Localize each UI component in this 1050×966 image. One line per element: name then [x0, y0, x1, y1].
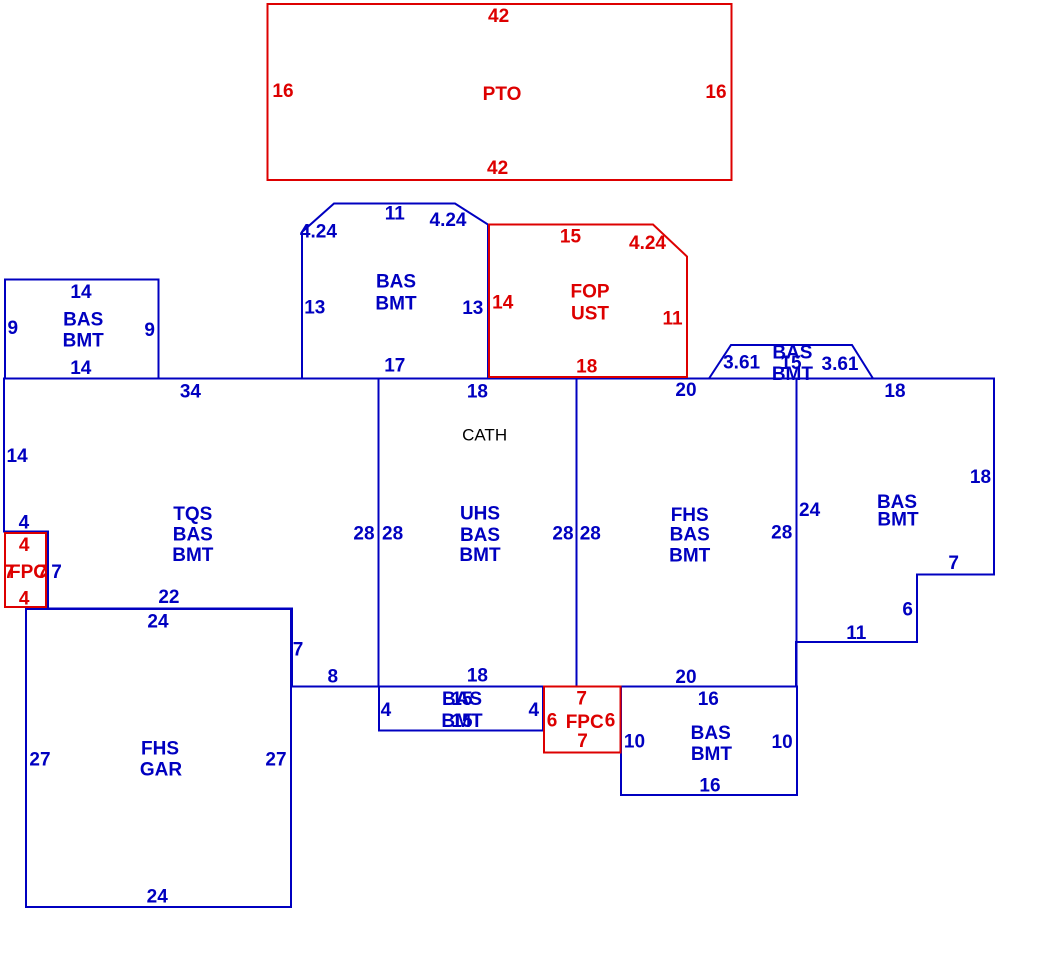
svg-text:7: 7 — [37, 562, 48, 583]
svg-text:34: 34 — [180, 382, 202, 403]
svg-text:18: 18 — [467, 382, 488, 403]
svg-text:BAS: BAS — [670, 524, 710, 545]
svg-text:4.24: 4.24 — [430, 210, 467, 231]
svg-text:11: 11 — [846, 623, 867, 644]
svg-text:28: 28 — [382, 524, 403, 545]
svg-text:FOP: FOP — [570, 282, 609, 303]
svg-text:GAR: GAR — [140, 760, 183, 781]
svg-text:10: 10 — [624, 732, 645, 753]
svg-text:BAS: BAS — [376, 272, 416, 293]
svg-text:BMT: BMT — [459, 545, 501, 566]
svg-text:BMT: BMT — [172, 545, 214, 566]
svg-text:10: 10 — [772, 732, 793, 753]
svg-text:42: 42 — [488, 6, 509, 27]
svg-text:9: 9 — [144, 320, 155, 341]
svg-text:24: 24 — [147, 612, 169, 633]
svg-text:FPC: FPC — [566, 712, 604, 733]
svg-text:22: 22 — [158, 587, 179, 608]
svg-text:BMT: BMT — [63, 331, 105, 352]
svg-text:TQS: TQS — [173, 504, 212, 525]
svg-text:UHS: UHS — [460, 504, 500, 525]
svg-text:7: 7 — [576, 688, 587, 709]
svg-text:28: 28 — [552, 524, 573, 545]
svg-text:28: 28 — [353, 524, 374, 545]
svg-text:27: 27 — [29, 749, 50, 770]
svg-text:PTO: PTO — [483, 84, 522, 105]
svg-text:BAS: BAS — [173, 524, 213, 545]
svg-text:18: 18 — [884, 381, 905, 402]
svg-text:16: 16 — [699, 775, 720, 796]
svg-text:7: 7 — [948, 553, 959, 574]
svg-text:4: 4 — [19, 589, 30, 610]
svg-text:BMT: BMT — [375, 293, 417, 314]
svg-text:17: 17 — [384, 356, 405, 377]
svg-text:BMT: BMT — [691, 744, 733, 765]
svg-text:BMT: BMT — [772, 364, 814, 385]
svg-text:3.61: 3.61 — [723, 353, 760, 374]
svg-text:7: 7 — [51, 562, 62, 583]
svg-text:16: 16 — [272, 81, 293, 102]
svg-text:20: 20 — [675, 380, 696, 401]
svg-text:BAS: BAS — [691, 723, 731, 744]
svg-text:16: 16 — [698, 689, 719, 710]
svg-text:CATH: CATH — [462, 426, 507, 445]
svg-text:6: 6 — [605, 710, 616, 731]
svg-text:15: 15 — [451, 689, 473, 710]
svg-text:11: 11 — [662, 309, 683, 330]
svg-text:28: 28 — [580, 524, 601, 545]
svg-text:14: 14 — [7, 446, 29, 467]
svg-text:18: 18 — [467, 666, 488, 687]
svg-text:4: 4 — [381, 700, 392, 721]
svg-text:28: 28 — [771, 523, 792, 544]
svg-text:8: 8 — [328, 667, 339, 688]
svg-text:4.24: 4.24 — [300, 221, 337, 242]
svg-text:24: 24 — [799, 500, 821, 521]
svg-text:14: 14 — [70, 282, 92, 303]
svg-text:13: 13 — [462, 298, 483, 319]
svg-text:42: 42 — [487, 158, 508, 179]
svg-text:9: 9 — [8, 318, 19, 339]
svg-text:7: 7 — [577, 731, 588, 752]
svg-text:FHS: FHS — [141, 739, 179, 760]
svg-text:18: 18 — [576, 357, 597, 378]
svg-text:BMT: BMT — [669, 545, 711, 566]
svg-text:24: 24 — [147, 887, 169, 908]
svg-text:UST: UST — [571, 304, 609, 325]
svg-text:18: 18 — [970, 467, 991, 488]
svg-text:BAS: BAS — [460, 525, 500, 546]
svg-text:16: 16 — [705, 82, 726, 103]
svg-text:14: 14 — [70, 358, 92, 379]
svg-text:BAS: BAS — [63, 310, 103, 331]
svg-text:3.61: 3.61 — [822, 354, 859, 375]
svg-text:4: 4 — [19, 535, 30, 556]
svg-text:13: 13 — [304, 297, 325, 318]
svg-text:20: 20 — [675, 667, 696, 688]
svg-text:15: 15 — [451, 711, 473, 732]
svg-text:15: 15 — [560, 227, 582, 248]
svg-text:27: 27 — [265, 749, 286, 770]
svg-text:6: 6 — [547, 710, 558, 731]
svg-text:14: 14 — [492, 293, 514, 314]
svg-text:FHS: FHS — [671, 505, 709, 526]
svg-text:4.24: 4.24 — [629, 233, 666, 254]
svg-text:7: 7 — [293, 639, 304, 660]
svg-text:BMT: BMT — [877, 510, 919, 531]
svg-text:11: 11 — [385, 204, 406, 225]
svg-text:6: 6 — [902, 600, 913, 621]
svg-text:4: 4 — [19, 512, 30, 533]
svg-text:4: 4 — [529, 700, 540, 721]
